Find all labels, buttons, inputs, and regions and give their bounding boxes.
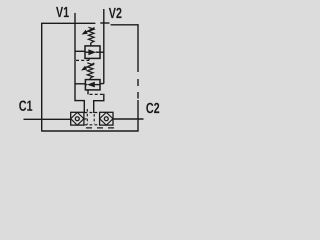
- orifice plug P1 box: [71, 112, 84, 125]
- pilot gallery dashed top horizontal: [85, 112, 100, 114]
- port label C1: [19, 100, 32, 110]
- wire V1 jog to left orifice plug: [75, 100, 84, 113]
- wire corner piece down-left-down to pilot gallery: [94, 94, 105, 113]
- CB2 flow line left: [85, 84, 87, 86]
- orifice plug P2 box: [100, 112, 113, 125]
- port label V2: [109, 8, 122, 18]
- drain gallery dashed line: [86, 127, 117, 129]
- CB2 pilot stub below box: [87, 90, 89, 95]
- node V2 port stem wire: [103, 9, 105, 84]
- port label V1: [56, 7, 69, 17]
- CB1 flow line left: [85, 51, 89, 53]
- CB2 spring: [87, 63, 93, 78]
- valve body outer box right edge upper solid: [137, 24, 139, 72]
- CB1 spring: [89, 27, 95, 43]
- CB2 spring stub: [89, 78, 91, 80]
- CB2 flow line right: [95, 84, 100, 86]
- valve body outer box top edge crossbar at V2 stem: [100, 22, 109, 24]
- wire V2 stem to upper relief box right port: [100, 51, 104, 53]
- pilot gallery dashed right vertical: [93, 114, 95, 124]
- wire stub right of orifice plug P1: [84, 118, 87, 120]
- orifice plug P2 orifice circle: [104, 117, 108, 121]
- CB1 flow line right: [96, 51, 100, 53]
- valve body outer box top edge right segment: [111, 24, 139, 26]
- CB1 pilot stub below box: [88, 58, 90, 60]
- valve body outer box bottom edge: [41, 130, 138, 132]
- counterbalance relief valve CB1 box: [85, 46, 100, 59]
- CB2 adjustment arrow tail: [86, 63, 94, 68]
- valve body outer box top edge left segment: [41, 22, 95, 24]
- CB1 pilot dashed line from V1 stem: [76, 59, 89, 61]
- orifice plug P1 diamond: [71, 112, 84, 125]
- valve body outer box left edge: [41, 23, 43, 131]
- CB1 spring stub: [90, 43, 92, 46]
- pilot gallery dashed bottom horizontal: [85, 124, 100, 126]
- orifice plug P1 orifice circle: [75, 117, 79, 121]
- CB2 pilot dashed line to V2 corner piece: [90, 93, 104, 95]
- pilot gallery dashed left vertical: [86, 109, 88, 125]
- valve body outer box right edge dashed pilot section: [137, 79, 139, 99]
- C2 port line: [113, 118, 144, 120]
- wire V2 stem to lower relief box right port: [100, 83, 104, 85]
- valve body outer box right edge lower solid: [137, 100, 139, 131]
- wire V1 stem to CB2 left port: [75, 83, 85, 85]
- orifice plug P2 diamond: [100, 112, 113, 125]
- node V1 port stem wire: [74, 13, 76, 101]
- C1 port line: [24, 118, 71, 120]
- CB2 adjustment arrow head: [81, 66, 87, 71]
- CB1 adjustment arrow tail: [87, 28, 95, 32]
- CB2 check arrow (left pointing): [87, 82, 95, 88]
- wire V1 stem to CB1 left port: [75, 50, 85, 52]
- counterbalance relief valve CB2 box: [85, 80, 100, 90]
- hydraulic dual counterbalance valve schematic: [0, 0, 183, 140]
- CB1 check arrow (right pointing): [88, 49, 96, 55]
- CB1 adjustment arrow head: [82, 30, 88, 35]
- port label C2: [146, 103, 159, 113]
